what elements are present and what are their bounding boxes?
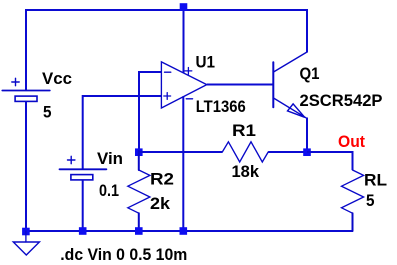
wire Vcc bottom (25, 101, 27, 232)
wire noninverting input horizontal (83, 95, 162, 97)
svg-text:.dc Vin 0 0.5 10m: .dc Vin 0 0.5 10m (60, 245, 187, 264)
junction op-amp V+ top rail (180, 3, 188, 11)
resistor R1 (222, 142, 268, 162)
wire top rail (25, 9, 308, 11)
svg-text:2SCR542P: 2SCR542P (300, 91, 383, 110)
svg-text:R1: R1 (232, 121, 256, 140)
wire Vin bottom vertical (82, 180, 84, 231)
junction op-amp V- bottom rail (180, 227, 188, 235)
op-amp U1 (161, 62, 206, 108)
wire feedback vertical (138, 71, 140, 152)
wire op-amp V- power (182, 96, 184, 231)
svg-text:RL: RL (364, 171, 387, 190)
svg-text:R2: R2 (150, 170, 174, 189)
svg-text:5: 5 (43, 103, 52, 122)
svg-text:U1: U1 (196, 53, 216, 72)
wire Vin top vertical (82, 95, 84, 169)
wire op-amp V+ power (183, 10, 185, 73)
wire feedback node to R1 (138, 151, 222, 153)
wire collector vertical (306, 9, 308, 53)
wire bottom rail (25, 230, 353, 232)
svg-text:Out: Out (338, 132, 365, 151)
svg-text:Vcc: Vcc (42, 69, 72, 88)
junction R2 bottom (135, 227, 143, 235)
junction ground node (22, 228, 30, 236)
svg-text:Q1: Q1 (300, 64, 320, 83)
battery V2 Vin symbol (60, 156, 107, 180)
svg-text:0.1: 0.1 (99, 181, 119, 200)
svg-text:18k: 18k (232, 162, 260, 181)
wire R1 to out node (268, 151, 307, 153)
battery V1 Vcc symbol (2, 78, 50, 101)
junction Vin bottom (79, 227, 87, 235)
ground symbol (13, 231, 39, 255)
wire left vertical Vcc top (25, 9, 27, 90)
junction feedback node (135, 148, 143, 156)
junction out node (303, 148, 311, 156)
wire op-amp output to base (207, 84, 274, 86)
svg-text:5: 5 (366, 191, 375, 210)
svg-text:LT1366: LT1366 (196, 97, 246, 116)
resistor RL (342, 170, 364, 231)
wire out node to RL (307, 152, 353, 170)
wire inverting input horizontal (139, 71, 162, 73)
transistor Q1 (273, 52, 307, 118)
wire emitter vertical (306, 118, 308, 153)
resistor R2 (128, 151, 150, 231)
svg-text:Vin: Vin (97, 149, 123, 168)
svg-text:2k: 2k (150, 194, 171, 213)
